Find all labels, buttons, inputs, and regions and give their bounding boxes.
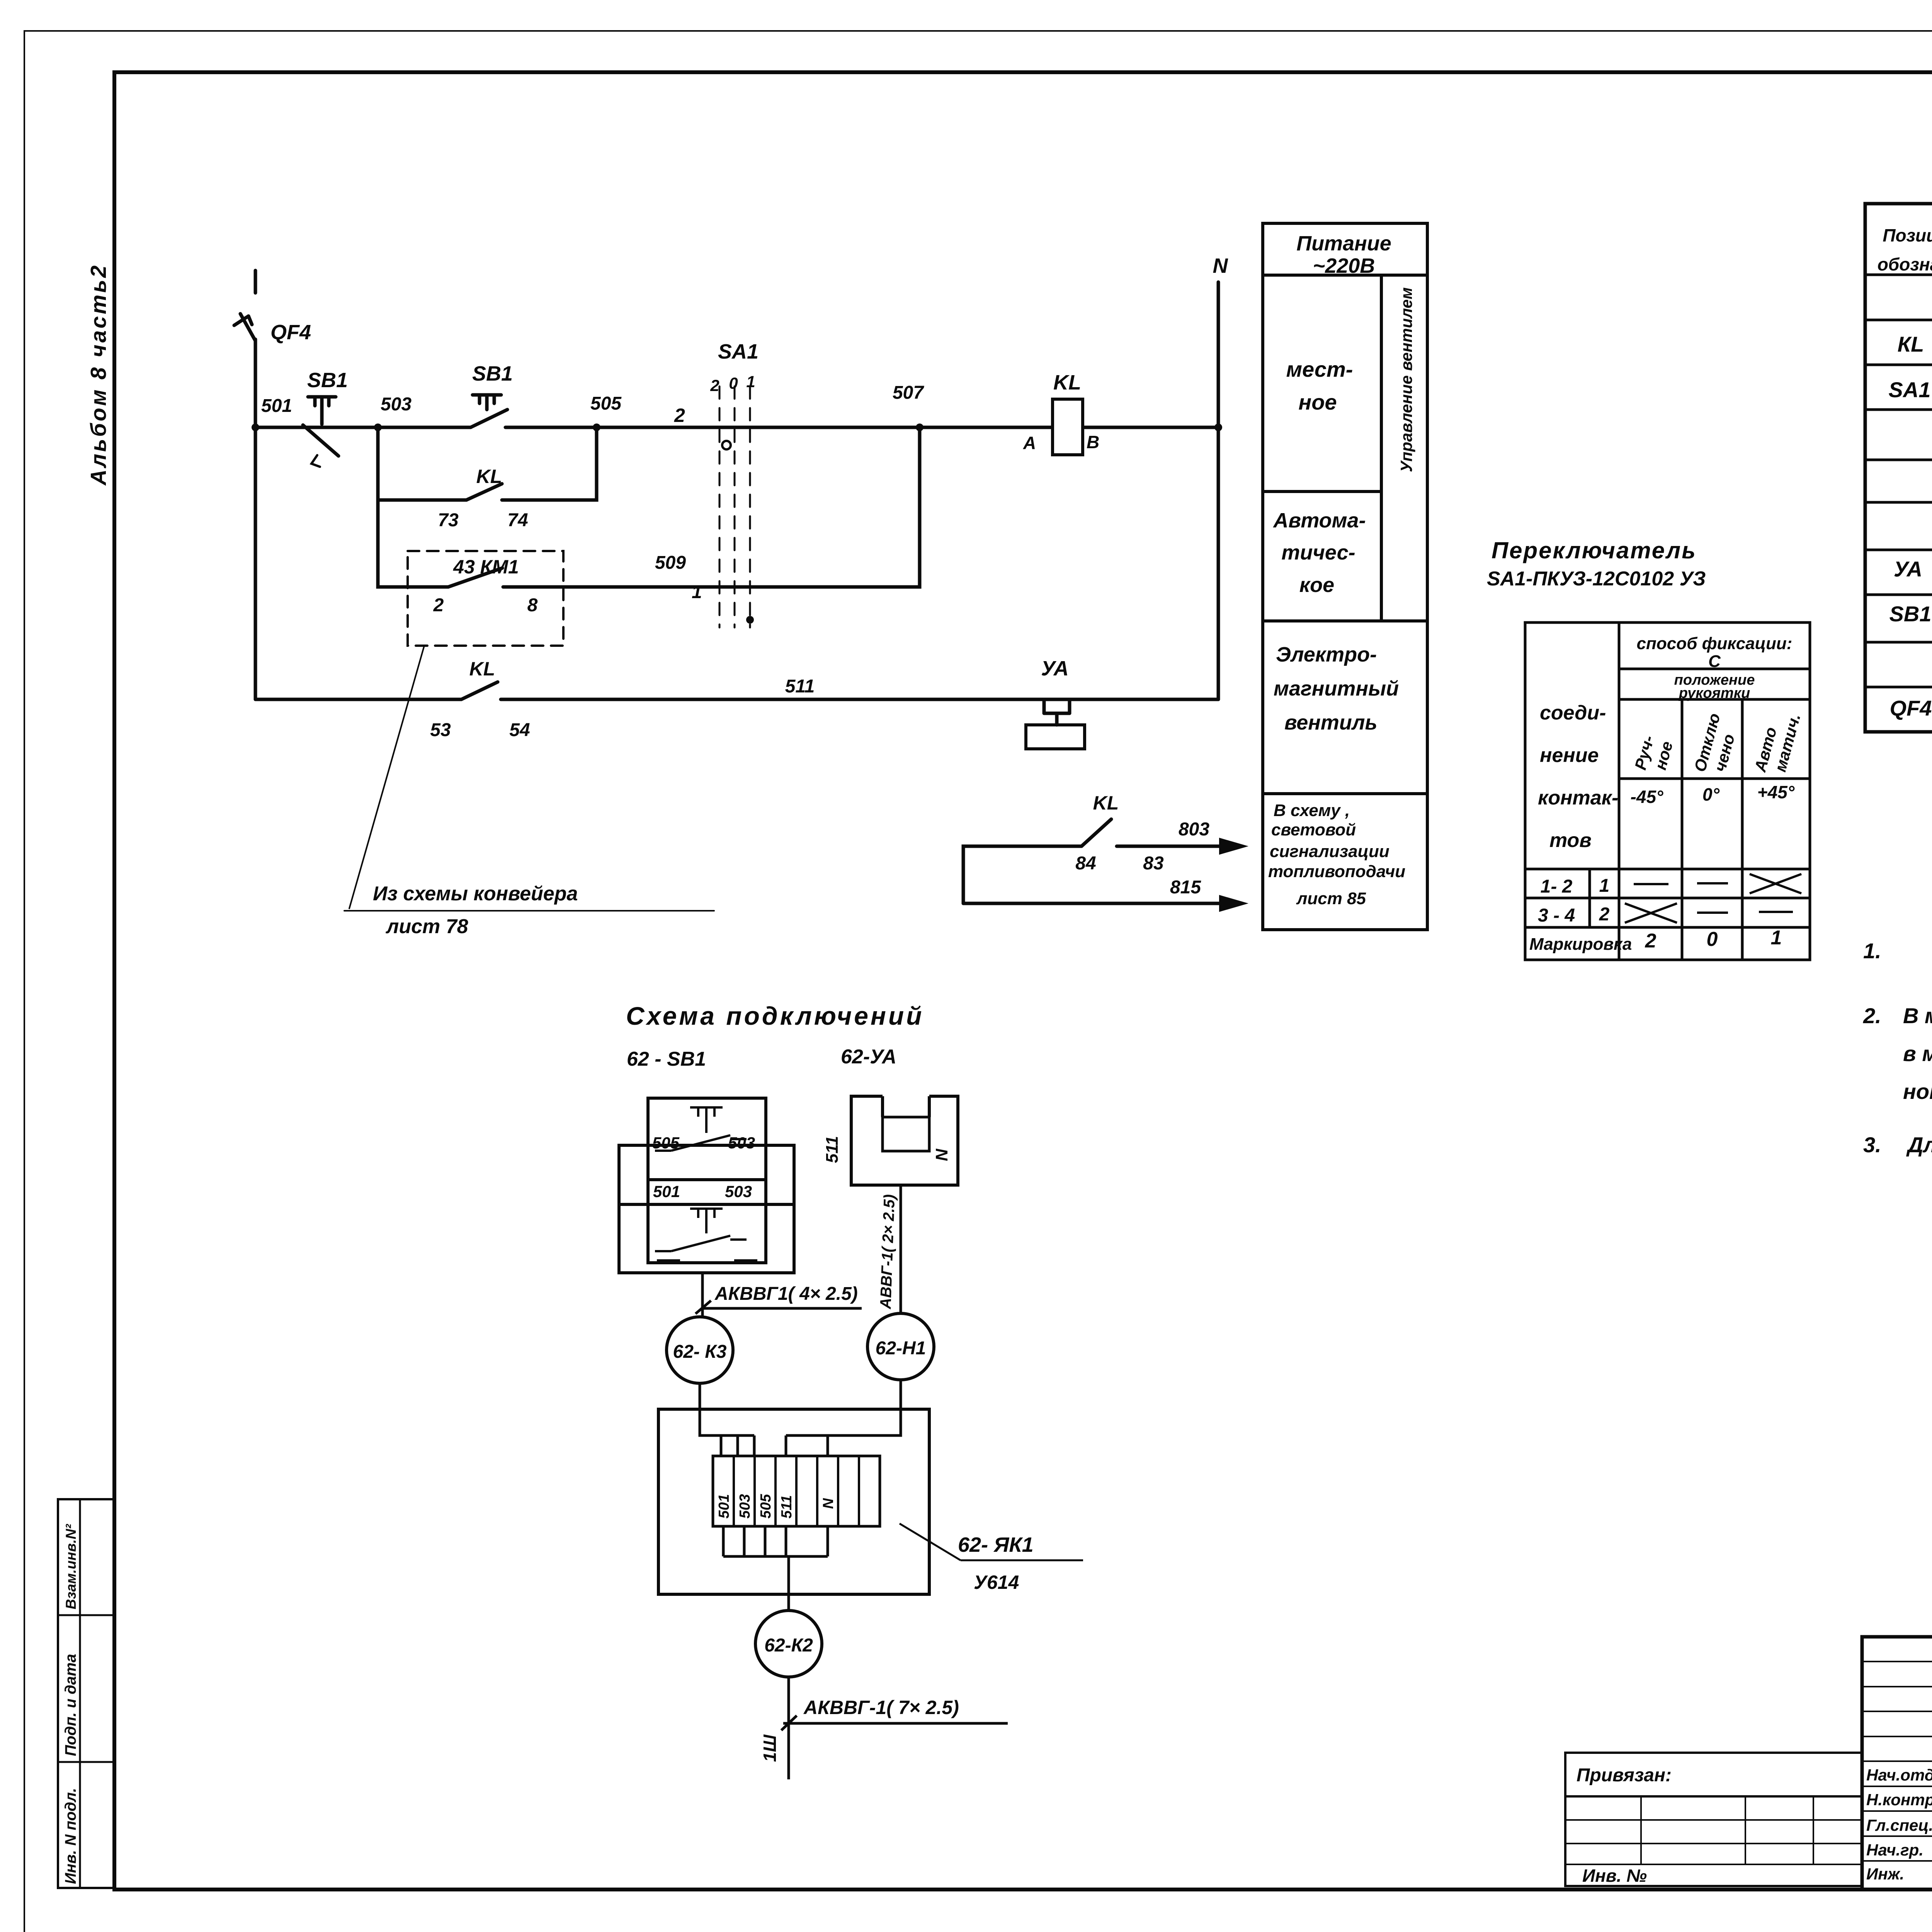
label 54: [509, 720, 530, 740]
wire top bus: [255, 426, 1218, 429]
svg-text:53: 53: [430, 720, 451, 740]
row 3-4: [1538, 904, 1610, 926]
row YA valve: [1894, 557, 1932, 589]
svg-text:SA1: SA1: [718, 340, 759, 363]
svg-text:2: 2: [1645, 930, 1656, 952]
breaker QF4: [234, 270, 255, 341]
labels 2 0 1 positions: [710, 372, 755, 395]
header: положение рукоятки: [1674, 672, 1755, 701]
svg-text:3.: 3.: [1863, 1133, 1881, 1157]
svg-text:КL: КL: [1898, 332, 1924, 356]
cell: Питание ~220В: [1296, 232, 1391, 277]
svg-text:501: 501: [261, 396, 292, 416]
wire to 1Ш: [781, 1677, 1008, 1779]
contact state marks row 2: [1625, 903, 1793, 923]
label 815: [1170, 877, 1201, 898]
relay contact KL 84-83 pickoff: [963, 819, 1248, 912]
svg-text:QF4: QF4: [1890, 696, 1932, 720]
label 83: [1143, 853, 1164, 874]
rotated header: Отключено: [1690, 711, 1738, 774]
labels 505 503: [652, 1134, 755, 1152]
svg-text:62 - SВ1: 62 - SВ1: [627, 1048, 706, 1070]
svg-text:тичес-: тичес-: [1281, 541, 1355, 564]
node 507: [916, 423, 923, 431]
svg-text:Из схемы конвейера: Из схемы конвейера: [373, 883, 578, 905]
solenoid valve YA: [1026, 699, 1085, 749]
relay contact KL 73-74: [466, 484, 502, 500]
svg-text:2: 2: [674, 405, 685, 426]
svg-text:SB1: SB1: [472, 362, 513, 385]
wire KM1 branch: [378, 427, 920, 587]
svg-text:Взам.инв.N²: Взам.инв.N²: [63, 1524, 79, 1609]
pushbutton SB1 stop contact: [303, 397, 338, 467]
svg-text:1.: 1.: [1863, 939, 1881, 963]
svg-text:505: 505: [758, 1494, 774, 1519]
svg-text:3 - 4: 3 - 4: [1538, 905, 1575, 926]
svg-text:лист 85: лист 85: [1296, 889, 1366, 908]
label 803: [1179, 819, 1209, 840]
contact KM1 43: [448, 568, 502, 587]
rotated header: Автоматич: [1751, 712, 1804, 774]
label 503: [381, 394, 412, 415]
label YA: [1041, 657, 1069, 680]
svg-text:73: 73: [438, 510, 459, 531]
cable label АКВВГ-1(7х2.5): [803, 1697, 959, 1718]
svg-text:SА1-ПКУЗ-12С0102 УЗ: SА1-ПКУЗ-12С0102 УЗ: [1487, 568, 1706, 590]
svg-text:SА1: SА1: [1889, 378, 1931, 402]
label B: [1087, 432, 1099, 452]
svg-text:В схему ,: В схему ,: [1274, 801, 1350, 820]
svg-text:АКВВГ-1( 7× 2.5): АКВВГ-1( 7× 2.5): [803, 1697, 959, 1718]
svg-text:N: N: [932, 1148, 951, 1161]
svg-text:2.: 2.: [1863, 1003, 1881, 1028]
wire from YA: [900, 1185, 902, 1313]
svg-text:лист 78: лист 78: [385, 915, 468, 938]
relay coil KL: [1053, 399, 1083, 455]
label KL 73-74: [476, 466, 502, 487]
label KL 84-83: [1093, 792, 1119, 814]
svg-text:нение: нение: [1540, 744, 1599, 767]
svg-text:SВ1: SВ1: [1889, 602, 1932, 626]
svg-text:509: 509: [655, 553, 686, 573]
row 1-2: [1541, 876, 1610, 897]
label 505: [590, 393, 622, 414]
label A: [1023, 433, 1036, 453]
label Инв N: [1582, 1866, 1647, 1886]
terminal strip: [713, 1456, 880, 1526]
svg-text:В: В: [1087, 432, 1099, 452]
svg-text:0: 0: [1707, 928, 1718, 951]
svg-text:+45°: +45°: [1757, 782, 1795, 802]
stamp label: Взам. инв. N: [63, 1524, 79, 1609]
header: способ фиксации С: [1637, 634, 1793, 671]
label 8 KM1: [527, 595, 538, 616]
terminal labels rotated: [716, 1494, 837, 1519]
note 3: [1863, 1133, 1932, 1190]
svg-text:54: 54: [509, 720, 530, 740]
wire L vertical: [254, 339, 257, 699]
svg-text:2: 2: [710, 376, 719, 395]
label QF4: [270, 321, 311, 344]
row SA1 switch: [1889, 378, 1932, 405]
svg-text:503: 503: [725, 1182, 752, 1201]
svg-text:1- 2: 1- 2: [1541, 876, 1573, 897]
svg-text:84: 84: [1075, 853, 1096, 874]
SA1 contact circle: [722, 441, 731, 449]
svg-text:Длины кабелей приведены в ка: Длины кабелей приведены в кабельном журн…: [1906, 1133, 1932, 1157]
svg-text:способ фиксации:: способ фиксации:: [1637, 634, 1793, 653]
svg-text:1: 1: [692, 582, 702, 602]
relay contact KL 53-54: [461, 682, 498, 699]
label 509: [655, 553, 686, 573]
angle row -45 0 +45: [1631, 782, 1795, 807]
cell: Управление вентилем (rotated): [1397, 287, 1415, 472]
svg-text:803: 803: [1179, 819, 1209, 840]
label 62-УА: [841, 1046, 896, 1068]
svg-text:62- К3: 62- К3: [673, 1342, 727, 1362]
svg-text:Маркировка: Маркировка: [1529, 935, 1632, 954]
svg-text:62-УА: 62-УА: [841, 1046, 896, 1068]
label 2 KM1: [433, 595, 444, 616]
wire from SB1: [696, 1273, 862, 1317]
row Маркировка 2 0 1: [1529, 927, 1782, 954]
svg-text:503: 503: [737, 1494, 753, 1519]
svg-text:KL: KL: [476, 466, 502, 487]
svg-text:АКВВГ1( 4× 2.5): АКВВГ1( 4× 2.5): [714, 1284, 858, 1304]
title block outer: [1862, 1637, 1932, 1889]
svg-text:511: 511: [779, 1495, 795, 1519]
button contact 501-503: [655, 1209, 757, 1260]
label 511: [785, 676, 815, 697]
svg-text:Управление вентилем: Управление вентилем: [1397, 287, 1415, 472]
svg-text:1: 1: [1599, 876, 1610, 896]
svg-text:511: 511: [785, 676, 815, 697]
button contact 505-503: [655, 1107, 747, 1151]
label 1 terminal: [692, 582, 702, 602]
svg-text:N: N: [820, 1498, 837, 1509]
signature names: [1866, 1766, 1932, 1883]
label 501: [261, 396, 292, 416]
switch SA1 dashed shafts: [719, 386, 750, 628]
dashed enclosure KM1: [408, 551, 563, 646]
svg-text:Позиц.: Позиц.: [1883, 225, 1932, 245]
label N: [1213, 254, 1228, 277]
svg-text:62- ЯК1: 62- ЯК1: [958, 1533, 1034, 1556]
svg-text:1: 1: [1771, 927, 1782, 949]
svg-text:ное: ное: [1298, 390, 1337, 414]
stamp label: Подп. и дата: [62, 1654, 79, 1756]
wire N vertical: [1217, 282, 1220, 699]
svg-text:0°: 0°: [1702, 784, 1720, 804]
svg-text:815: 815: [1170, 877, 1201, 898]
table: SA1 positions: [1525, 622, 1810, 960]
svg-text:62-К2: 62-К2: [764, 1635, 813, 1656]
svg-text:Привязан:: Привязан:: [1577, 1765, 1672, 1786]
box: valve YA: [851, 1096, 958, 1185]
label 53: [430, 720, 451, 740]
signature grid: [1862, 1637, 1932, 1889]
svg-text:магнитный: магнитный: [1274, 677, 1399, 700]
svg-text:сигнализации: сигнализации: [1270, 842, 1389, 861]
note 1: [1863, 939, 1932, 963]
node N junction: [1214, 423, 1222, 431]
svg-text:507: 507: [893, 383, 924, 403]
leader 62-ЯК1: [900, 1524, 1083, 1560]
svg-text:Инв. N подл.: Инв. N подл.: [62, 1788, 79, 1884]
label KL 53-54: [469, 658, 495, 680]
box 62-ЯК1: [658, 1409, 929, 1594]
label N rotated: [932, 1148, 951, 1161]
svg-text:83: 83: [1143, 853, 1164, 874]
svg-text:KL: KL: [1053, 371, 1081, 394]
table: Питание column: [1263, 223, 1427, 930]
label SB1 second: [472, 362, 513, 385]
svg-text:2: 2: [433, 595, 444, 616]
svg-text:УА: УА: [1041, 657, 1069, 680]
svg-text:511: 511: [823, 1136, 842, 1163]
svg-text:43 КМ1: 43 КМ1: [453, 556, 519, 578]
svg-text:Альбом 8 часть2: Альбом 8 часть2: [86, 264, 111, 486]
row SB1 post: [1889, 602, 1932, 635]
note: Из схемы конвейера лист 78: [373, 883, 578, 938]
label 84: [1075, 853, 1096, 874]
wires into terminal strip: [700, 1380, 901, 1456]
cell: Электромагнитный вентиль: [1274, 643, 1399, 734]
svg-text:-45°: -45°: [1631, 787, 1663, 807]
box Привязан: [1565, 1753, 1862, 1886]
svg-text:В монтажных схемах шкафа, в: В монтажных схемах шкафа, в кабельном жу…: [1903, 1003, 1932, 1028]
label 43 KM1: [453, 556, 519, 578]
wire self-hold branch: [378, 427, 597, 500]
svg-text:тов: тов: [1549, 829, 1592, 852]
svg-text:KL: KL: [469, 658, 495, 680]
svg-text:УА: УА: [1894, 557, 1922, 581]
stamp label: Инв. N подл.: [62, 1788, 79, 1884]
svg-text:SB1: SB1: [307, 369, 348, 392]
svg-text:~220В: ~220В: [1313, 254, 1375, 277]
leader to note from KM1: [344, 646, 714, 911]
SA1 lower dot: [746, 616, 754, 624]
left margin label: Альбом 8 часть 2: [86, 264, 111, 486]
node 505: [593, 423, 600, 431]
wires below strip: [723, 1526, 828, 1611]
rotated header: Ручное: [1631, 733, 1676, 772]
header Позиц обознач: [1878, 225, 1932, 274]
circle 62-Н1: [867, 1313, 934, 1380]
circle 62-К3: [667, 1317, 733, 1383]
svg-text:2: 2: [1599, 904, 1610, 925]
svg-text:505: 505: [590, 393, 622, 414]
svg-text:топливоподачи: топливоподачи: [1268, 862, 1405, 881]
svg-text:номер электропривода по план: номер электропривода по плану.: [1903, 1079, 1932, 1104]
node 503: [374, 423, 382, 431]
svg-text:0: 0: [729, 374, 738, 392]
label SA1: [718, 340, 759, 363]
svg-text:Подп. и дата: Подп. и дата: [62, 1654, 79, 1756]
circle 62-К2: [755, 1611, 822, 1677]
row QF4 breaker: [1890, 696, 1932, 724]
svg-text:74: 74: [507, 510, 528, 531]
svg-text:QF4: QF4: [270, 321, 311, 344]
table: parts list grid: [1865, 204, 1932, 732]
label KL coil: [1053, 371, 1081, 394]
svg-text:соеди-: соеди-: [1540, 702, 1606, 724]
svg-text:Нач.отд.: Нач.отд.: [1866, 1766, 1932, 1784]
svg-text:Инв. №: Инв. №: [1582, 1866, 1647, 1886]
svg-text:1: 1: [746, 372, 755, 391]
svg-text:62-Н1: 62-Н1: [876, 1338, 926, 1359]
label У614: [974, 1571, 1019, 1593]
cell: Автоматическое: [1272, 509, 1366, 597]
label Привязан: [1577, 1765, 1672, 1786]
svg-text:Гл.спец.: Гл.спец.: [1866, 1816, 1932, 1834]
svg-text:501: 501: [653, 1182, 680, 1201]
label SB1 first: [307, 369, 348, 392]
svg-text:N: N: [1213, 254, 1228, 277]
label 507: [893, 383, 924, 403]
title: Схема подключений: [626, 1002, 924, 1030]
cable label АКВВГ1(4х2.5): [714, 1284, 858, 1304]
svg-text:Автома-: Автома-: [1272, 509, 1366, 532]
svg-text:А: А: [1023, 433, 1036, 453]
svg-text:505: 505: [652, 1134, 680, 1152]
svg-text:С: С: [1708, 652, 1721, 671]
cell: В схему световой сигнализации: [1268, 801, 1405, 908]
label 2 terminal: [674, 405, 685, 426]
svg-text:503: 503: [381, 394, 412, 415]
wire bottom bus: [255, 698, 1218, 701]
svg-text:кое: кое: [1299, 573, 1334, 597]
note 2: [1863, 1003, 1932, 1104]
label 74: [507, 510, 528, 531]
svg-text:503: 503: [728, 1134, 755, 1152]
svg-text:в маркировке аппаратов и каб: в маркировке аппаратов и кабелей впереди…: [1903, 1041, 1932, 1066]
svg-text:Инж.: Инж.: [1866, 1865, 1904, 1883]
node 501: [252, 423, 259, 431]
box: post SB1: [619, 1098, 794, 1273]
labels 501 503: [653, 1182, 752, 1201]
left cell: соединение контактов: [1538, 702, 1618, 852]
svg-text:световой: световой: [1271, 820, 1356, 839]
contact state marks row 1: [1634, 874, 1801, 893]
svg-text:мест-: мест-: [1286, 357, 1353, 381]
svg-text:вентиль: вентиль: [1284, 711, 1378, 734]
svg-text:501: 501: [716, 1494, 732, 1519]
svg-text:KL: KL: [1093, 792, 1119, 814]
svg-text:8: 8: [527, 595, 538, 616]
cell: местное: [1286, 357, 1353, 414]
svg-text:Питание: Питание: [1296, 232, 1391, 255]
pushbutton SB1 start contact: [471, 395, 507, 427]
label 1Ш rotated: [760, 1734, 780, 1762]
left stamp column boxes: [58, 1499, 114, 1888]
svg-text:Электро-: Электро-: [1276, 643, 1377, 666]
svg-text:Схема подключений: Схема подключений: [626, 1002, 924, 1030]
svg-text:Н.контр.: Н.контр.: [1866, 1791, 1932, 1809]
label 62-SB1: [627, 1048, 706, 1070]
svg-text:обознач: обознач: [1878, 254, 1932, 274]
label 62-ЯК1: [958, 1533, 1034, 1556]
svg-text:У614: У614: [974, 1571, 1019, 1593]
label 73: [438, 510, 459, 531]
svg-text:рукоятки: рукоятки: [1679, 685, 1750, 701]
row KL relay: [1898, 332, 1932, 360]
svg-text:Нач.гр.: Нач.гр.: [1866, 1841, 1923, 1859]
svg-text:контак-: контак-: [1538, 787, 1618, 809]
cable label АВВГ-1(2х2.5) rotated: [877, 1194, 898, 1310]
svg-text:1Ш: 1Ш: [760, 1734, 780, 1762]
title: Переключатель SA1: [1487, 537, 1706, 590]
label 511 rotated: [823, 1136, 842, 1163]
svg-text:Переключатель: Переключатель: [1492, 537, 1697, 563]
